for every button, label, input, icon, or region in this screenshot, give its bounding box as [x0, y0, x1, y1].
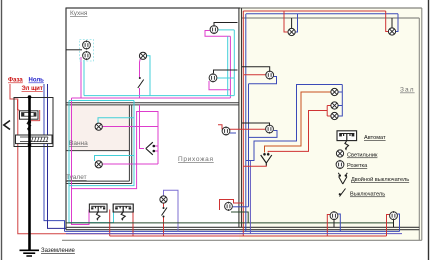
wire red bottom socketB loop: [387, 215, 390, 237]
wire cyan kitchen wall socket1 stub: [218, 29, 234, 31]
breaker lever zigzag: [27, 116, 30, 129]
wire magenta kitchen wall socket2 stub: [209, 81, 230, 90]
bath block right wall (double): [129, 105, 131, 184]
wire blue hallway socket1 stub: [230, 132, 236, 134]
socket hallway wall upper: [222, 126, 230, 135]
wire black stub kitchen wall socket1: [214, 23, 238, 26]
wire magenta left wall vertical down to hallway: [72, 98, 90, 225]
wire black stub bottom socketB: [393, 220, 395, 228]
lamp living 1: [288, 28, 295, 35]
wire blue drop living lamp2: [396, 14, 398, 32]
wire black stub living socket upper: [242, 67, 270, 71]
wire red hallway breaker2 output: [132, 210, 134, 237]
wire blue-violet hallway lamp return: [164, 190, 179, 231]
living room inner top wall line: [242, 17, 419, 19]
wire red hallway lamp to switch and bus: [163, 204, 165, 237]
legend lamp symbol: [336, 150, 343, 157]
apartment outer right wall (double gray): [419, 8, 422, 240]
lamp bath: [95, 123, 102, 130]
living room cream floor fill: [239, 8, 422, 240]
breaker hallway 2: [113, 204, 133, 221]
wire magenta toilet lamp: [103, 163, 159, 165]
breaker in panel (inner): [22, 113, 37, 117]
wire magenta kitchen lamp-switch drop: [139, 59, 142, 98]
wire red living switch common: [244, 165, 267, 166]
wire blue divider riser: [245, 14, 247, 231]
wire magenta kitchen bundle horizontal: [72, 97, 231, 99]
apartment outer left wall: [65, 8, 67, 230]
socket living wall upper: [266, 70, 274, 79]
svg-text:Туалет: Туалет: [66, 174, 87, 181]
wire black stub bottom socketA: [333, 220, 335, 228]
wire magenta under toilet branch: [72, 112, 159, 189]
socket kitchen wall upper: [210, 25, 218, 34]
wire blue chandelier bracket: [338, 85, 342, 117]
kitchen bottom wall (double): [66, 103, 239, 105]
apartment outer top wall: [66, 7, 241, 9]
wire blue hallway socket2 return: [233, 206, 249, 208]
wire black stub kitchen wall socket2: [214, 70, 238, 73]
wire cyan divider riser 2: [227, 36, 229, 95]
wire orange chandelier lamp1 to switch: [265, 92, 331, 153]
lamp chandelier 2: [331, 102, 338, 109]
bath room pink fill: [66, 104, 130, 151]
svg-text:Кухня: Кухня: [70, 10, 88, 17]
wire black stub kitchen sockets pair: [66, 49, 82, 51]
wire phase red from label down: [10, 84, 243, 234]
svg-text:Автомат: Автомат: [364, 135, 386, 141]
wire blue divider riser 3: [249, 161, 251, 234]
legend switch symbol: [339, 189, 346, 197]
wire cyan left wall vertical to hallway breaker2: [69, 101, 114, 223]
lamp kitchen: [139, 52, 146, 59]
wire blue living top bus: [246, 13, 398, 15]
wire cyan under toilet to bath-right riser: [69, 101, 134, 186]
wire dashed cyan box around kitchen sockets: [80, 40, 94, 62]
panel box: [14, 98, 53, 147]
wire magenta kitchen sockets drop: [80, 57, 82, 98]
socket kitchen upper: [83, 40, 91, 49]
svg-text:Ноль: Ноль: [29, 78, 45, 84]
wire cyan kitchen wall socket2 stub: [217, 77, 234, 79]
main earth conductor (thick): [28, 96, 31, 250]
wire neutral blue second: [48, 84, 67, 228]
ground symbol: [20, 249, 40, 251]
lamp living 2: [388, 28, 395, 35]
wire red hallway breaker1 output: [109, 210, 111, 237]
socket living wall: [266, 124, 274, 133]
wire cyan divider riser: [233, 30, 235, 96]
wire blue chandelier feed: [246, 85, 342, 161]
wire cyan second bundle: [69, 100, 134, 102]
wire magenta bath lamp: [103, 126, 159, 128]
wire red hallway socket1 bracket: [218, 125, 222, 130]
lamp chandelier 3: [331, 112, 338, 119]
wire red chandelier lamps23 bracket: [327, 106, 331, 117]
wire cyan kitchen sockets drop: [83, 60, 85, 96]
lamp hallway: [160, 196, 167, 203]
wire neutral blue from label down: [44, 84, 65, 231]
svg-text:Розетка: Розетка: [347, 163, 368, 169]
svg-text:Двойной выключатель: Двойной выключатель: [351, 176, 409, 183]
legend socket symbol: [336, 160, 344, 169]
wire red chandelier to switch: [268, 111, 327, 153]
wire magenta double switch stubs: [155, 146, 159, 151]
wire red divider riser: [242, 11, 244, 236]
switch kitchen: [138, 77, 144, 88]
double switch living: [261, 153, 272, 166]
socket living bottom B: [390, 211, 398, 220]
kitchen / living divider wall (double): [239, 8, 242, 227]
wire blue bottom socketA return: [338, 214, 341, 231]
supply entry arrow: [4, 121, 10, 130]
wire black stub living lamp1: [291, 18, 293, 28]
switch hallway: [162, 207, 168, 218]
lamp chandelier 1: [331, 88, 338, 95]
wire neutral blue bottom bus: [65, 230, 400, 232]
wire dark ground run living bottom: [66, 212, 394, 223]
lamp toilet: [95, 161, 102, 168]
wire cyan kitchen lamp return: [147, 56, 150, 96]
apartment outer bottom wall gray: [62, 239, 422, 241]
breaker in panel (outer): [20, 111, 39, 119]
wire black stub living socket: [242, 123, 270, 125]
wire cyan toilet lamp return: [95, 156, 135, 162]
socket living bottom A: [330, 211, 338, 220]
svg-text:Светильник: Светильник: [347, 153, 378, 159]
breaker hallway 1: [89, 204, 107, 221]
bath / toilet divider wall: [66, 150, 129, 152]
socket kitchen lower: [83, 51, 91, 60]
wire magenta kitchen wall socket1 stub: [205, 31, 230, 37]
legend breaker symbol: [337, 131, 357, 151]
wire blue living socket return: [249, 131, 278, 138]
wire cyan bath lamp return: [98, 118, 134, 123]
svg-text:Прихожая: Прихожая: [178, 156, 214, 163]
svg-text:Ванна: Ванна: [69, 140, 88, 147]
wire red drop living lamp1: [284, 11, 288, 32]
wire magenta double switch common: [140, 105, 145, 149]
wire purple bottom bus: [66, 233, 402, 235]
panel terminal block: [16, 135, 53, 144]
svg-text:Эл щит: Эл щит: [22, 86, 43, 92]
wire red living top bus: [243, 10, 385, 12]
wire red living socket feed through wall: [222, 128, 265, 130]
socket kitchen wall lower: [209, 73, 217, 82]
wire phase red bottom bus: [110, 235, 387, 237]
svg-text:Фаза: Фаза: [8, 78, 23, 84]
svg-text:Зал: Зал: [400, 87, 415, 94]
wire red bottom socketA loop: [327, 215, 330, 237]
wire blue divider riser 2: [248, 84, 250, 207]
wire cyan kitchen bundle horizontal: [84, 95, 234, 97]
socket hallway wall lower: [225, 202, 233, 211]
wire blue bottom socketB return: [396, 214, 399, 231]
wire red living socket upper feed: [244, 74, 266, 76]
svg-text:Выключатель: Выключатель: [350, 192, 385, 198]
wire red drop living lamp2: [386, 11, 389, 32]
wire red hallway socket2 bracket: [220, 200, 244, 211]
inner bottom wall (double dark): [66, 227, 419, 229]
wire magenta divider socket drop: [229, 36, 231, 98]
svg-text:Заземление: Заземление: [41, 248, 76, 254]
bath block bottom wall (double): [66, 181, 132, 183]
double switch bath-toilet (pointing left): [146, 142, 155, 155]
wire black stub living lamp2: [391, 18, 393, 28]
wire blue drop living lamp1: [295, 14, 297, 32]
wire blue living socket upper return: [249, 77, 277, 84]
screenshot left edge line: [1, 0, 2, 260]
screenshot right edge line: [428, 0, 429, 260]
legend double switch symbol: [338, 173, 347, 184]
wire red bracket around panel breaker: [18, 100, 40, 121]
